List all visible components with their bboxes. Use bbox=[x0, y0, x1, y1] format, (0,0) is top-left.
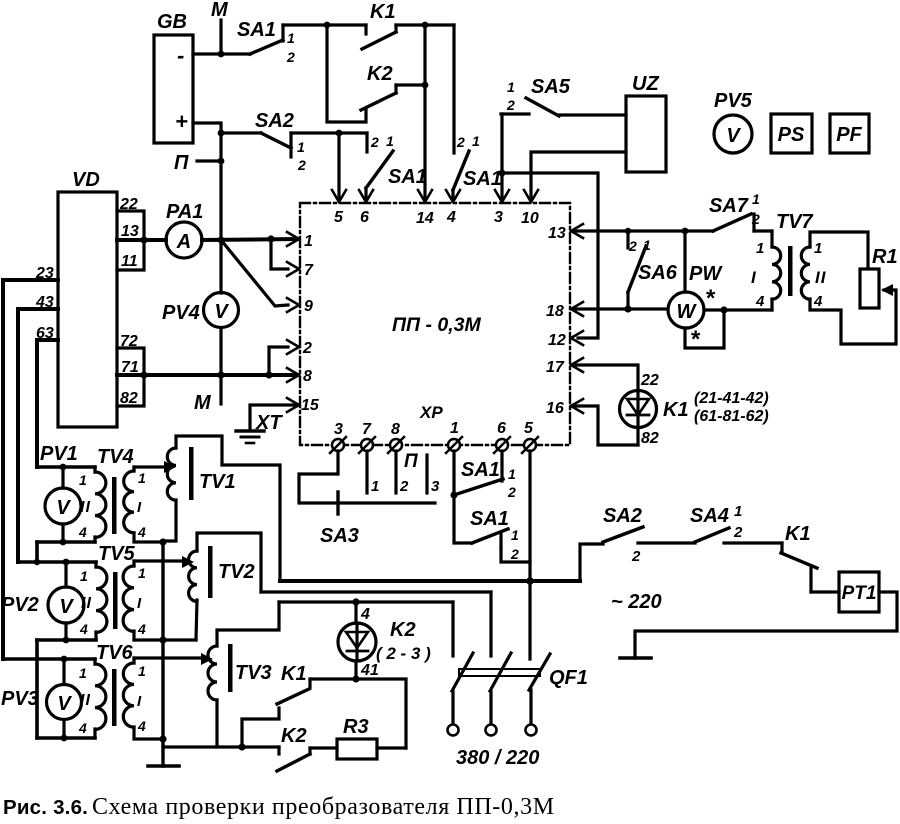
pin 16 (right) bbox=[546, 399, 583, 417]
svg-text:1: 1 bbox=[511, 527, 519, 543]
svg-text:4: 4 bbox=[137, 718, 146, 734]
wire VD 43 bbox=[18, 294, 58, 562]
resistor R3 bbox=[310, 716, 406, 759]
wire UZ to pin 10 bbox=[531, 152, 626, 198]
VD terminals 72/71/82 bracket bbox=[117, 333, 144, 407]
TV5 core bbox=[113, 572, 118, 629]
voltmeter PV4 bbox=[162, 293, 239, 328]
svg-text:TV3: TV3 bbox=[235, 662, 272, 684]
svg-text:R3: R3 bbox=[343, 716, 369, 738]
svg-text:~ 220: ~ 220 bbox=[611, 591, 662, 613]
svg-text:2: 2 bbox=[297, 157, 306, 173]
svg-text:3: 3 bbox=[494, 209, 503, 226]
svg-text:V: V bbox=[57, 693, 72, 715]
wire pin 17 to lamp bbox=[574, 365, 638, 390]
wire bracket to pin 7 bbox=[271, 239, 288, 269]
svg-text:1: 1 bbox=[643, 237, 651, 253]
svg-text:A: A bbox=[176, 231, 191, 253]
svg-text:4: 4 bbox=[137, 621, 146, 637]
switch SA6 bbox=[628, 231, 678, 309]
svg-text:PF: PF bbox=[836, 124, 862, 146]
svg-text:П: П bbox=[174, 152, 189, 174]
wire TV4 rails bbox=[37, 467, 95, 562]
pin 7 (left) bbox=[287, 262, 314, 279]
svg-text:11: 11 bbox=[121, 253, 138, 270]
svg-text:2: 2 bbox=[510, 546, 519, 562]
relay PT1 bbox=[811, 572, 879, 612]
svg-text:6: 6 bbox=[360, 209, 369, 226]
svg-text:-: - bbox=[177, 43, 184, 68]
wire XP3 to SA3 bbox=[299, 451, 435, 503]
common return wire bbox=[159, 538, 166, 766]
switch SA1 (battery) bbox=[237, 19, 295, 65]
autotransformer TV3 bbox=[208, 602, 279, 747]
svg-text:1: 1 bbox=[472, 133, 480, 149]
wire diagonal to pin 9 bbox=[221, 240, 288, 306]
svg-text:Рис. 3.6.: Рис. 3.6. bbox=[3, 796, 88, 819]
svg-text:V: V bbox=[726, 125, 741, 147]
contact K1 (top) bbox=[362, 1, 396, 49]
stub XP8 (П pos 2) bbox=[396, 451, 409, 495]
svg-text:1: 1 bbox=[287, 30, 295, 46]
svg-text:K2: K2 bbox=[390, 619, 416, 641]
VD terminals 22/13/11 bracket bbox=[117, 196, 144, 270]
svg-text:2: 2 bbox=[506, 97, 515, 113]
svg-text:2: 2 bbox=[399, 478, 409, 495]
svg-text:UZ: UZ bbox=[632, 73, 659, 95]
svg-text:M: M bbox=[194, 392, 212, 414]
svg-text:16: 16 bbox=[546, 400, 564, 417]
svg-text:23: 23 bbox=[35, 265, 54, 282]
converter VD bbox=[58, 169, 117, 427]
contact K2 (top) bbox=[361, 63, 396, 110]
voltmeter PV1 bbox=[40, 443, 81, 545]
svg-text:V: V bbox=[56, 497, 71, 519]
wire K2 to pin14 line bbox=[396, 82, 428, 89]
svg-text:K1: K1 bbox=[785, 523, 811, 545]
svg-text:13: 13 bbox=[121, 223, 139, 240]
svg-text:2: 2 bbox=[507, 484, 516, 500]
svg-text:PS: PS bbox=[778, 124, 805, 146]
switch SA2 (top) bbox=[221, 110, 306, 173]
pin 15 (left) bbox=[287, 397, 320, 414]
switch SA7 bbox=[709, 191, 772, 231]
relay lamp K1 bbox=[620, 372, 769, 447]
svg-text:( 2 - 3 ): ( 2 - 3 ) bbox=[376, 644, 431, 663]
pin 12 (right) bbox=[548, 331, 583, 349]
svg-text:Схема проверки преобразователя: Схема проверки преобразователя ПП-0,3М bbox=[92, 794, 555, 820]
svg-text:1: 1 bbox=[756, 240, 764, 257]
svg-text:PV2: PV2 bbox=[1, 594, 39, 616]
svg-text:10: 10 bbox=[521, 210, 539, 227]
svg-text:72: 72 bbox=[120, 333, 138, 350]
svg-text:1: 1 bbox=[79, 472, 87, 488]
wire SA5 to UZ bbox=[559, 113, 626, 116]
svg-text:1: 1 bbox=[386, 133, 394, 149]
wire pin 16 to lamp bbox=[574, 406, 638, 445]
svg-text:5: 5 bbox=[524, 420, 534, 437]
svg-text:TV5: TV5 bbox=[98, 543, 136, 565]
stub XP7 (П pos 1) bbox=[367, 451, 379, 495]
wire mains line b bbox=[261, 590, 491, 593]
svg-text:QF1: QF1 bbox=[549, 667, 588, 689]
wire mains line a bbox=[280, 577, 580, 585]
svg-text:2: 2 bbox=[302, 340, 312, 357]
svg-text:K2: K2 bbox=[367, 63, 393, 85]
svg-text:SA6: SA6 bbox=[638, 262, 678, 284]
svg-text:4: 4 bbox=[755, 293, 765, 310]
svg-text:3: 3 bbox=[431, 478, 440, 495]
svg-text:PW: PW bbox=[689, 263, 723, 285]
relay lamp K2 bbox=[338, 598, 431, 679]
svg-text:K1: K1 bbox=[281, 663, 307, 685]
svg-text:18: 18 bbox=[546, 303, 564, 320]
svg-text:1: 1 bbox=[138, 470, 146, 486]
voltmeter PV5 bbox=[714, 90, 753, 153]
svg-text:SA1: SA1 bbox=[388, 166, 427, 188]
wire pin 3 vertical bbox=[499, 114, 506, 198]
connector XP pin 7 bbox=[359, 421, 375, 453]
wire mains line c bbox=[279, 600, 453, 603]
svg-text:K1: K1 bbox=[663, 399, 689, 421]
svg-text:(21-41-42): (21-41-42) bbox=[694, 390, 769, 407]
breaker QF1 bbox=[448, 581, 588, 736]
switch SA3 bbox=[320, 492, 359, 547]
svg-text:XT: XT bbox=[255, 412, 283, 434]
svg-text:4: 4 bbox=[360, 606, 370, 623]
svg-text:15: 15 bbox=[301, 397, 320, 414]
svg-text:82: 82 bbox=[641, 430, 659, 447]
wire pin 14 vertical bbox=[423, 25, 426, 198]
wire TV5-I to TV2 tap bbox=[134, 556, 196, 640]
svg-text:2: 2 bbox=[456, 134, 465, 150]
svg-text:82: 82 bbox=[120, 390, 138, 407]
wire pin 5 bbox=[337, 133, 340, 198]
svg-text:PV4: PV4 bbox=[162, 302, 200, 324]
svg-text:TV6: TV6 bbox=[96, 642, 134, 664]
TV7 core bbox=[788, 246, 793, 296]
svg-text:П: П bbox=[404, 451, 418, 472]
svg-text:7: 7 bbox=[362, 421, 372, 438]
svg-text:SA1: SA1 bbox=[463, 168, 502, 190]
svg-text:SA1: SA1 bbox=[237, 19, 276, 41]
svg-text:V: V bbox=[214, 301, 229, 323]
svg-text:14: 14 bbox=[416, 210, 434, 227]
pin 1 (left) bbox=[287, 232, 313, 250]
svg-text:9: 9 bbox=[304, 298, 313, 315]
svg-text:PV1: PV1 bbox=[40, 443, 78, 465]
transformer TV4 winding I bbox=[124, 467, 163, 542]
svg-text:4: 4 bbox=[79, 621, 88, 637]
svg-text:4: 4 bbox=[78, 524, 87, 540]
wire R3 loop up bbox=[310, 675, 406, 748]
svg-text:5: 5 bbox=[334, 209, 344, 226]
svg-text:4: 4 bbox=[446, 209, 456, 226]
switch SA1 (pin 4) bbox=[453, 25, 502, 198]
svg-text:41: 41 bbox=[360, 662, 379, 679]
battery GB bbox=[154, 11, 193, 143]
wire TV5 rails bbox=[18, 559, 96, 738]
wire PT1 to ground bbox=[635, 592, 897, 658]
switch SA1 (XP lower) bbox=[454, 495, 530, 562]
label 380/220 bbox=[456, 747, 539, 769]
svg-text:PV3: PV3 bbox=[1, 688, 39, 710]
svg-text:7: 7 bbox=[304, 262, 314, 279]
svg-text:SA1: SA1 bbox=[470, 508, 509, 530]
svg-text:2: 2 bbox=[286, 49, 295, 65]
wire junction to pin 12 bbox=[502, 173, 598, 338]
pin 13 (right) bbox=[548, 224, 583, 242]
svg-text:1: 1 bbox=[138, 663, 146, 679]
switch SA1 (pin 6) bbox=[366, 133, 427, 198]
svg-text:1: 1 bbox=[304, 233, 313, 250]
svg-text:63: 63 bbox=[36, 325, 54, 342]
wire XP5 down bbox=[526, 451, 533, 585]
svg-text:VD: VD bbox=[72, 169, 100, 191]
svg-text:TV4: TV4 bbox=[97, 446, 134, 468]
svg-text:1: 1 bbox=[814, 240, 822, 257]
svg-text:TV7: TV7 bbox=[776, 211, 814, 233]
wire GB minus to SA1 bbox=[193, 51, 250, 58]
pin 9 (left) bbox=[287, 298, 313, 315]
terminal XT with earth bbox=[236, 405, 297, 443]
transformer TV7 winding I bbox=[751, 211, 814, 310]
dashed box ПП-0,3М bbox=[300, 203, 570, 445]
svg-text:6: 6 bbox=[497, 420, 506, 437]
svg-text:II: II bbox=[80, 499, 91, 516]
rheostat R1 bbox=[860, 246, 898, 308]
svg-text:SA2: SA2 bbox=[255, 110, 294, 132]
pin 10 (top) bbox=[521, 190, 539, 227]
pin 5 (top) bbox=[332, 190, 346, 226]
svg-text:GB: GB bbox=[157, 11, 187, 33]
wire return to K contacts bbox=[163, 743, 279, 750]
pin 14 (top) bbox=[416, 190, 434, 227]
connector XP pin 6 bbox=[494, 420, 510, 453]
wire top rail left bbox=[283, 22, 366, 29]
svg-text:II: II bbox=[81, 595, 92, 612]
svg-text:1: 1 bbox=[297, 139, 305, 155]
svg-text:V: V bbox=[59, 596, 74, 618]
pin 3 (top) bbox=[494, 190, 509, 226]
voltmeter PV2 bbox=[1, 559, 84, 644]
svg-text:TV1: TV1 bbox=[199, 471, 236, 493]
switch SA5 bbox=[501, 76, 571, 116]
label ~220 bbox=[611, 591, 662, 613]
svg-text:43: 43 bbox=[35, 294, 54, 311]
svg-text:SA1: SA1 bbox=[461, 459, 500, 481]
svg-text:2: 2 bbox=[628, 238, 637, 254]
svg-text:PA1: PA1 bbox=[166, 201, 203, 223]
connector XP pin 8 bbox=[388, 421, 404, 453]
contact K2 (lamp circuit) bbox=[277, 725, 310, 771]
wire VD 23 bbox=[3, 265, 58, 659]
svg-text:4: 4 bbox=[78, 720, 87, 736]
transformer TV6 winding II bbox=[78, 642, 134, 738]
svg-text:8: 8 bbox=[391, 421, 400, 438]
transformer TV4 winding II bbox=[78, 446, 134, 542]
svg-text:1: 1 bbox=[450, 420, 459, 437]
ground (common) bbox=[148, 764, 179, 768]
wattmeter PW bbox=[668, 231, 723, 328]
wire VD13 to PA1 bbox=[117, 236, 166, 243]
svg-text:K2: K2 bbox=[281, 725, 307, 747]
svg-text:M: M bbox=[211, 0, 229, 21]
svg-text:12: 12 bbox=[548, 332, 566, 349]
svg-text:2: 2 bbox=[370, 134, 379, 150]
switch SA2 (mains) bbox=[580, 505, 643, 581]
wire PV4 down bbox=[219, 328, 222, 375]
svg-text:1: 1 bbox=[508, 466, 516, 482]
svg-text:K1: K1 bbox=[370, 1, 396, 23]
svg-text:3: 3 bbox=[334, 421, 343, 438]
wire SA2 to SA1a bbox=[291, 130, 367, 137]
switch SA1 (XP pins 1-6) bbox=[450, 451, 516, 500]
svg-text:2: 2 bbox=[733, 524, 743, 541]
svg-text:1: 1 bbox=[80, 568, 88, 584]
wire VD71 to pin 8 bbox=[117, 371, 297, 378]
svg-text:XP: XP bbox=[419, 403, 443, 422]
svg-text:4: 4 bbox=[813, 293, 823, 310]
pin 17 (right) bbox=[546, 358, 583, 376]
rectifier UZ bbox=[626, 73, 666, 172]
ammeter PA1 bbox=[166, 201, 203, 258]
wire VD 63 bbox=[36, 325, 58, 467]
meter PS bbox=[771, 114, 812, 153]
pin 2 (left) bbox=[287, 340, 312, 357]
node M (lower stub) bbox=[194, 375, 221, 414]
node M (top) bbox=[211, 0, 229, 54]
svg-text:(61-81-62): (61-81-62) bbox=[694, 408, 769, 425]
svg-text:2: 2 bbox=[751, 211, 760, 227]
transformer TV5 winding I bbox=[123, 561, 146, 640]
svg-text:II: II bbox=[80, 692, 91, 709]
wire PW to TV7 bbox=[704, 308, 772, 311]
wire K2 branch bbox=[327, 25, 366, 122]
wire pin 13 rail bbox=[574, 228, 713, 235]
pin 8 (left) bbox=[287, 368, 312, 385]
wire bracket to pin 2 bbox=[269, 347, 288, 375]
wire TV6 rails bbox=[3, 659, 95, 738]
meter PF bbox=[830, 114, 869, 153]
autotransformer TV2 bbox=[189, 533, 261, 640]
pin 18 (right) bbox=[546, 302, 583, 320]
wire pin 18 rail bbox=[574, 305, 668, 312]
svg-text:SA2: SA2 bbox=[603, 505, 642, 527]
connector XP pin 3 bbox=[330, 421, 346, 453]
svg-text:+: + bbox=[175, 109, 188, 134]
svg-text:1: 1 bbox=[138, 565, 146, 581]
transformer TV5 winding II bbox=[79, 543, 136, 640]
switch SA4 bbox=[638, 503, 743, 543]
wire GB plus down bbox=[193, 123, 224, 293]
svg-text:W: W bbox=[677, 301, 698, 323]
TV6 core bbox=[112, 669, 117, 726]
svg-text:1: 1 bbox=[507, 79, 515, 95]
svg-text:TV2: TV2 bbox=[218, 561, 255, 583]
TV4 core bbox=[112, 477, 117, 534]
node П (XP) bbox=[404, 451, 440, 495]
svg-text:PT1: PT1 bbox=[842, 583, 877, 604]
svg-text:13: 13 bbox=[548, 225, 566, 242]
wire top rail right bbox=[396, 22, 454, 29]
autotransformer TV1 bbox=[163, 436, 280, 581]
svg-text:22: 22 bbox=[119, 196, 138, 213]
svg-text:SA5: SA5 bbox=[531, 76, 571, 98]
connector XP pin 5 bbox=[522, 420, 538, 453]
node П bbox=[174, 152, 221, 174]
svg-text:2: 2 bbox=[631, 548, 641, 565]
svg-text:4: 4 bbox=[137, 524, 146, 540]
svg-text:SA3: SA3 bbox=[320, 525, 359, 547]
voltmeter PV3 bbox=[1, 656, 82, 742]
wire TV6-I to TV3 tap bbox=[134, 653, 213, 665]
svg-text:SA4: SA4 bbox=[690, 505, 729, 527]
transformer TV7 winding II bbox=[801, 232, 896, 344]
svg-text:II: II bbox=[815, 268, 827, 287]
pin 4 (top) bbox=[446, 190, 460, 226]
svg-text:1: 1 bbox=[752, 191, 760, 207]
svg-text:1: 1 bbox=[734, 503, 742, 520]
svg-text:R1: R1 bbox=[872, 246, 898, 268]
PW lower terminal loop bbox=[685, 306, 728, 353]
svg-text:380 / 220: 380 / 220 bbox=[456, 747, 539, 769]
caption bbox=[3, 794, 555, 820]
transformer TV6 winding I bbox=[123, 658, 163, 739]
svg-text:PV5: PV5 bbox=[714, 90, 753, 112]
pin 6 (top) bbox=[359, 190, 373, 226]
svg-text:SA7: SA7 bbox=[709, 195, 749, 217]
wire TV4-I to TV1 tap bbox=[134, 461, 176, 473]
svg-text:17: 17 bbox=[546, 359, 565, 376]
svg-text:8: 8 bbox=[303, 368, 312, 385]
svg-text:22: 22 bbox=[640, 372, 659, 389]
svg-text:1: 1 bbox=[371, 478, 379, 495]
contact K1 (PT1) bbox=[724, 523, 817, 592]
wire PA1 to pin 1 bbox=[202, 235, 297, 242]
svg-text:ПП - 0,3М: ПП - 0,3М bbox=[392, 314, 481, 336]
svg-text:1: 1 bbox=[79, 665, 87, 681]
ground (PT1) bbox=[620, 656, 651, 660]
connector XP pin 1 bbox=[446, 420, 462, 453]
contact K1 (lamp circuit) bbox=[242, 663, 310, 747]
